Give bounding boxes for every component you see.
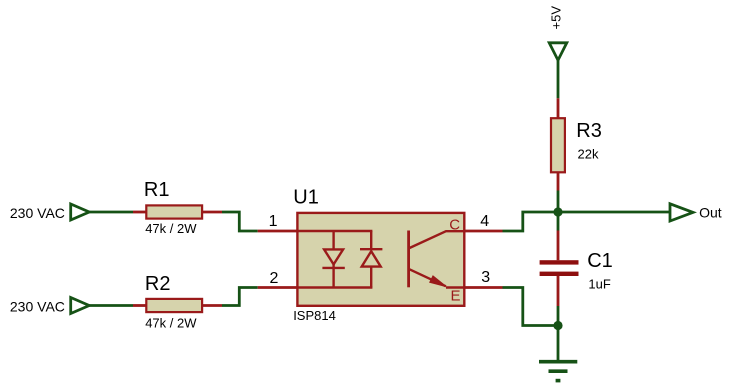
ground (539, 362, 577, 383)
wire (503, 288, 559, 326)
wire (557, 191, 560, 213)
svg-text:47k / 2W: 47k / 2W (145, 221, 197, 236)
wire (503, 212, 559, 231)
svg-text:22k: 22k (578, 147, 599, 162)
capacitor C1 (540, 231, 579, 307)
net label Out (699, 205, 722, 221)
svg-text:+5V: +5V (549, 6, 564, 30)
svg-text:R1: R1 (144, 179, 170, 201)
pin 3 lead (465, 286, 503, 289)
pin number 3 (481, 269, 490, 286)
wire (internal anode rail) (297, 230, 372, 232)
resistor R1 (133, 205, 222, 218)
svg-text:230 VAC: 230 VAC (10, 205, 65, 221)
wire (89, 304, 133, 307)
svg-text:ISP814: ISP814 (293, 308, 336, 323)
input terminal T2 (71, 298, 90, 314)
input terminal T1 (71, 204, 90, 220)
wire (222, 288, 258, 306)
svg-text:U1: U1 (293, 187, 319, 209)
wire (internal cathode rail) (297, 286, 372, 288)
junction node A (553, 207, 562, 216)
wire (557, 212, 560, 231)
pin number 4 (480, 213, 489, 230)
svg-text:E: E (451, 287, 461, 304)
label R2 (145, 273, 171, 295)
resistor R3 (551, 98, 565, 190)
label R3 (576, 120, 602, 142)
phototransistor Q1 (409, 231, 465, 288)
svg-text:1: 1 (269, 213, 278, 230)
wire (222, 212, 258, 231)
value 22k (578, 147, 599, 162)
LED diode D_A (down) (322, 231, 344, 288)
svg-text:R2: R2 (145, 273, 171, 295)
junction node B (553, 321, 562, 330)
wire (557, 60, 560, 98)
wire (557, 326, 560, 361)
net label 230 VAC (row 2) (10, 298, 65, 314)
svg-text:R3: R3 (576, 120, 602, 142)
resistor R2 (133, 299, 222, 312)
pin number 1 (269, 213, 278, 230)
svg-text:2: 2 (270, 270, 279, 287)
svg-text:C: C (449, 217, 460, 234)
pin label C (449, 217, 460, 234)
svg-text:Out: Out (699, 205, 722, 221)
label C1 (587, 250, 613, 272)
power terminal +5V (549, 6, 567, 61)
label R1 (144, 179, 170, 201)
value 47k / 2W (R1) (145, 221, 197, 236)
svg-text:4: 4 (480, 213, 489, 230)
value 1uF (588, 277, 610, 292)
optocoupler U1 body (297, 213, 464, 306)
label ISP814 (293, 308, 336, 323)
svg-text:1uF: 1uF (588, 277, 610, 292)
svg-text:C1: C1 (587, 250, 613, 272)
wire (557, 306, 560, 326)
svg-text:230 VAC: 230 VAC (10, 298, 65, 314)
pin label E (451, 287, 461, 304)
output terminal Out (670, 204, 693, 221)
wire (89, 211, 133, 214)
pin number 2 (270, 270, 279, 287)
value 47k / 2W (R2) (145, 315, 197, 330)
net label 230 VAC (row 1) (10, 205, 65, 221)
svg-text:47k / 2W: 47k / 2W (145, 315, 197, 330)
wire (558, 211, 670, 214)
LED diode D_B (up) (360, 231, 382, 288)
pin 2 lead (258, 286, 298, 289)
pin 4 lead (465, 230, 503, 233)
label U1 (293, 187, 319, 209)
svg-text:3: 3 (481, 269, 490, 286)
pin 1 lead (258, 230, 298, 233)
